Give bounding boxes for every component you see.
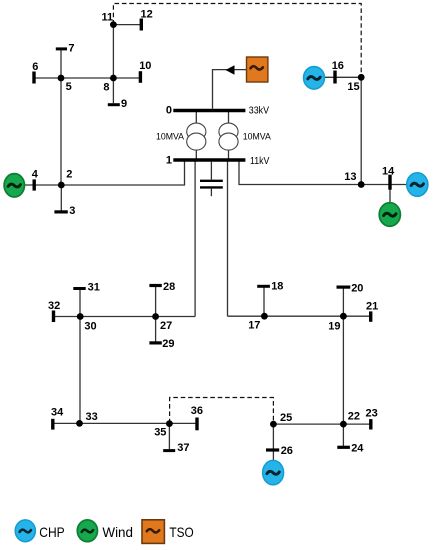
terminal bar bus 14	[388, 175, 391, 190]
svg-text:3: 3	[69, 205, 75, 217]
node 11	[110, 21, 117, 28]
svg-text:10MVA: 10MVA	[243, 131, 272, 142]
legend Wind symbol	[77, 520, 97, 542]
wire node8 to bus9	[112, 78, 114, 103]
wire node13 to CHP G3	[361, 184, 407, 186]
svg-text:0: 0	[166, 105, 172, 117]
capacitor C1	[200, 161, 223, 196]
svg-text:15: 15	[347, 81, 359, 93]
wire node8 to node11	[112, 25, 114, 78]
wire lower-left main bus34 to bus36	[53, 422, 197, 424]
wire lower-left main bus32 to corner	[54, 316, 196, 318]
node 5	[58, 75, 65, 82]
legend CHP symbol	[15, 520, 35, 542]
terminal bar bus 10	[139, 71, 142, 83]
terminal bar bus 7	[56, 47, 67, 50]
terminal bar bus 36	[195, 418, 198, 431]
node 33	[76, 420, 83, 427]
dashed tie line node35 to node25	[170, 398, 274, 425]
svg-text:30: 30	[84, 321, 96, 333]
wire bus20 stem	[342, 288, 344, 316]
wire bus1 right feeder to node17	[227, 161, 229, 316]
svg-text:14: 14	[382, 166, 395, 178]
node 17	[261, 313, 268, 320]
wind generator G1 (bus 4)	[4, 174, 24, 197]
terminal bar bus 3	[54, 210, 67, 213]
wire stem to wind G4	[389, 185, 391, 204]
wind generator G4 (bus 14)	[379, 203, 400, 227]
svg-text:6: 6	[32, 61, 38, 73]
svg-text:21: 21	[366, 301, 378, 313]
svg-text:1: 1	[166, 154, 172, 166]
svg-text:4: 4	[32, 169, 39, 181]
svg-text:TSO: TSO	[169, 524, 193, 540]
wire wind G1 to node2	[24, 184, 61, 186]
CHP generator G5 (bus 26)	[263, 460, 284, 484]
TSO source box	[247, 57, 268, 82]
wire bus7 stem	[60, 50, 62, 78]
wire transformer T1 legs	[195, 112, 197, 159]
CHP generator G3 (bus 14)	[407, 173, 428, 197]
terminal bar bus 32	[52, 311, 55, 323]
svg-text:10MVA: 10MVA	[156, 131, 185, 142]
terminal bar bus 20	[337, 286, 351, 289]
svg-text:9: 9	[121, 98, 127, 110]
wire bus1 left feeder to node27	[194, 161, 196, 316]
svg-text:35: 35	[154, 427, 166, 439]
wire node11 to bus12	[113, 24, 140, 26]
svg-text:33kV: 33kV	[249, 106, 269, 117]
wire node27 to bus29	[155, 317, 157, 343]
wire node2 to bus1	[61, 161, 184, 185]
bus 1 busbar	[173, 158, 245, 162]
svg-text:17: 17	[248, 320, 260, 332]
CHP generator G2 (bus 16)	[304, 67, 325, 90]
svg-text:7: 7	[68, 42, 74, 54]
svg-text:34: 34	[51, 407, 64, 419]
svg-text:19: 19	[328, 321, 340, 333]
node 19	[340, 313, 347, 320]
terminal bar bus 34	[51, 419, 54, 430]
terminal bar bus 24	[337, 446, 350, 449]
svg-text:5: 5	[66, 81, 72, 93]
svg-text:37: 37	[177, 442, 189, 454]
terminal bar bus 28	[149, 284, 161, 287]
node 25	[270, 421, 277, 428]
node 27	[152, 313, 159, 320]
terminal bar bus 4	[33, 179, 36, 190]
wire bus31 stem	[79, 289, 81, 317]
wire node22 to bus23	[343, 423, 370, 425]
wire node30 to node33	[79, 317, 81, 424]
svg-text:16: 16	[332, 60, 344, 72]
svg-text:29: 29	[162, 338, 174, 350]
wire CHP G2 to node15	[325, 76, 362, 78]
node 35	[166, 420, 173, 427]
svg-text:36: 36	[191, 405, 203, 417]
svg-text:11kV: 11kV	[250, 156, 270, 167]
svg-text:31: 31	[88, 281, 100, 293]
wire node25 to node22	[273, 423, 343, 425]
wire bus28 stem	[155, 287, 157, 317]
svg-text:32: 32	[48, 300, 60, 312]
svg-text:CHP: CHP	[39, 524, 64, 540]
wire node5 to node2	[60, 78, 62, 185]
transformer T2	[219, 123, 238, 150]
wire node25 to CHP G5	[272, 424, 274, 461]
svg-text:22: 22	[348, 411, 360, 423]
wire node2 to bus3	[60, 185, 62, 211]
svg-text:23: 23	[366, 407, 378, 419]
terminal bar bus 23	[369, 419, 372, 429]
dashed tie line node11 to node15	[113, 4, 361, 78]
svg-text:27: 27	[160, 320, 172, 332]
wire node35 to bus37	[168, 423, 170, 449]
terminal bar bus 29	[149, 341, 161, 344]
svg-text:8: 8	[103, 82, 109, 94]
wire node22 to bus24	[342, 424, 344, 446]
svg-text:24: 24	[351, 443, 364, 455]
wire bus1 to node13	[239, 161, 361, 184]
node 2	[58, 182, 65, 189]
legend TSO symbol	[142, 520, 164, 544]
svg-text:13: 13	[344, 171, 356, 183]
node 15	[358, 74, 365, 81]
svg-text:18: 18	[271, 280, 283, 292]
svg-text:33: 33	[86, 411, 98, 423]
wire bus18 stem	[263, 288, 265, 317]
terminal bar bus 37	[163, 449, 175, 452]
terminal bar bus 12	[140, 19, 143, 31]
svg-text:10: 10	[139, 60, 151, 72]
svg-text:11: 11	[102, 11, 114, 23]
wire transformer T2 legs	[228, 112, 230, 159]
svg-text:26: 26	[281, 445, 293, 457]
terminal bar bus 6	[32, 72, 35, 84]
svg-text:20: 20	[351, 283, 363, 295]
node 8	[110, 75, 117, 82]
wire node15 to node13	[360, 77, 362, 184]
wire lower-right main corner to bus21	[228, 315, 371, 317]
wire main top feeder bus6-bus10	[34, 77, 140, 79]
terminal bar bus 21	[369, 311, 372, 321]
node 13	[358, 181, 365, 188]
node 22	[340, 421, 347, 428]
transformer T1	[187, 123, 206, 150]
svg-text:Wind: Wind	[102, 524, 133, 540]
terminal bar bus 9	[108, 103, 120, 106]
svg-text:25: 25	[280, 412, 292, 424]
node 30	[77, 313, 84, 320]
wire TSO to bus0	[213, 70, 247, 109]
svg-text:28: 28	[163, 281, 175, 293]
wire node19 to node22	[342, 316, 344, 424]
terminal bar bus 16	[333, 71, 336, 84]
arrow to bus0 from TSO	[226, 65, 235, 74]
terminal bar bus 26	[266, 448, 279, 451]
svg-text:12: 12	[141, 9, 153, 21]
bus 0 busbar	[173, 109, 245, 113]
svg-text:2: 2	[66, 169, 72, 181]
terminal bar bus 31	[73, 287, 85, 290]
terminal bar bus 18	[257, 285, 270, 288]
